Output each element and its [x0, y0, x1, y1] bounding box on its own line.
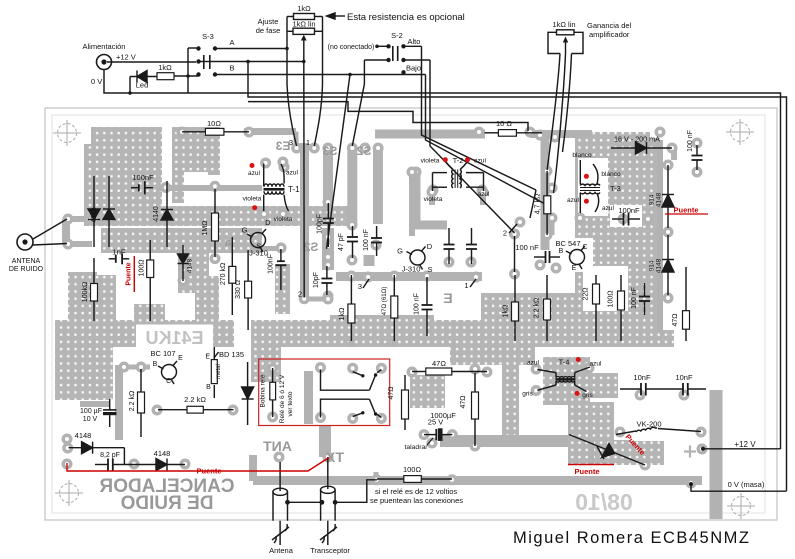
resistor R15 22 vertical: [593, 275, 600, 341]
svg-text:taladrar: taladrar: [404, 444, 428, 451]
svg-text:azul: azul: [286, 170, 298, 177]
svg-text:+12 V: +12 V: [734, 440, 756, 449]
svg-text:S2: S2: [356, 144, 371, 158]
svg-text:azul: azul: [478, 191, 490, 198]
wire S-3 to phase pot rail: [248, 62, 787, 492]
capacitor C17 100uF 10V: [103, 399, 116, 427]
svg-text:S: S: [427, 265, 432, 274]
svg-text:Ganancia del: Ganancia del: [587, 21, 632, 30]
svg-text:2.2 kΩ: 2.2 kΩ: [534, 298, 541, 318]
svg-text:DE RUIDO: DE RUIDO: [9, 266, 44, 273]
wire +12V out: [701, 447, 781, 451]
svg-text:1nF: 1nF: [113, 248, 126, 257]
svg-text:a: a: [224, 237, 231, 249]
svg-text:100Ω: 100Ω: [139, 260, 146, 277]
svg-text:Puente: Puente: [673, 206, 698, 215]
transistor Q4 BC107: [158, 361, 177, 384]
svg-text:25 V: 25 V: [428, 418, 443, 427]
svg-text:4140: 4140: [153, 206, 160, 222]
diode D10 4148: [69, 442, 125, 465]
svg-text:47Ω: 47Ω: [672, 313, 679, 326]
svg-text:S-2: S-2: [391, 31, 403, 40]
svg-text:4148: 4148: [75, 431, 92, 440]
svg-text:Antena: Antena: [269, 546, 294, 555]
svg-text:azul: azul: [590, 361, 602, 368]
svg-text:100 µF: 100 µF: [80, 408, 102, 415]
svg-text:Relé de 6 ó 12 V: Relé de 6 ó 12 V: [279, 374, 286, 423]
svg-text:B: B: [206, 384, 211, 391]
resistor R1 1k: [157, 73, 174, 80]
svg-text:azul: azul: [248, 170, 260, 177]
capacitor C21 10nF: [666, 383, 706, 396]
resistor R5 100k vertical: [91, 258, 98, 321]
svg-text:1kΩ: 1kΩ: [297, 4, 311, 13]
svg-text:Alto: Alto: [408, 37, 421, 46]
svg-text:(no conectado): (no conectado): [328, 44, 375, 51]
transformer T-4: [537, 367, 590, 392]
diode D6 16V rail: [611, 142, 672, 154]
svg-text:1kΩ lin: 1kΩ lin: [552, 20, 575, 29]
svg-text:Miguel Romera ECB45NMZ: Miguel Romera ECB45NMZ: [513, 529, 750, 547]
diode D9: [242, 362, 254, 425]
svg-text:0 V (masa): 0 V (masa): [728, 480, 765, 489]
svg-text:4148: 4148: [154, 449, 171, 458]
red dot marker: [443, 157, 448, 162]
svg-text:E: E: [205, 354, 210, 361]
resistor R13 1k vertical: [512, 275, 519, 341]
svg-text:BC 107: BC 107: [150, 349, 175, 358]
svg-text:100 nF: 100 nF: [515, 243, 539, 252]
svg-text:4,7 kΩ: 4,7 kΩ: [535, 194, 542, 214]
switch S-2: [364, 44, 430, 74]
svg-text:A: A: [229, 38, 234, 47]
svg-text:2: 2: [298, 290, 302, 299]
resistor R19 47 horizontal: [412, 368, 487, 375]
relay outline box (red): [259, 359, 390, 426]
resistor R4 100 vertical: [147, 240, 154, 321]
svg-text:16 V - 200 mA: 16 V - 200 mA: [614, 135, 660, 144]
svg-text:azul: azul: [602, 205, 614, 212]
wire pad link: [514, 236, 516, 272]
capacitor C13 100nF vertical right: [639, 283, 650, 315]
svg-text:100 nF: 100 nF: [414, 293, 421, 315]
svg-text:C: C: [166, 378, 171, 385]
svg-text:G: G: [242, 226, 248, 235]
PCB copper pour regions: [55, 127, 674, 465]
svg-text:T-3: T-3: [610, 184, 621, 193]
capacitor C15 100nF: [612, 213, 640, 226]
svg-text:330 Ω: 330 Ω: [235, 280, 242, 299]
svg-text:ANT: ANT: [263, 438, 292, 454]
fiducial crosses: [53, 119, 755, 519]
svg-text:100 nF: 100 nF: [363, 229, 370, 251]
resistor R10 1k vertical: [348, 275, 355, 341]
resistor R7 270k vertical: [229, 237, 236, 315]
resistor R3 10ohm: [485, 130, 542, 137]
svg-text:+12 V: +12 V: [116, 53, 136, 62]
svg-text:270 kΩ: 270 kΩ: [220, 263, 227, 285]
svg-text:BC 547: BC 547: [555, 239, 580, 248]
solder pads: [62, 127, 708, 489]
svg-text:C: C: [582, 244, 587, 251]
resistor R6 1M vertical: [212, 189, 219, 257]
transformer T-1: [264, 164, 289, 212]
svg-text:T-2: T-2: [453, 156, 464, 165]
capacitor C9 47nF: [509, 224, 517, 233]
relay coil: [270, 368, 276, 417]
svg-text:1: 1: [306, 138, 310, 147]
svg-text:Led: Led: [136, 81, 149, 90]
svg-text:E: E: [572, 265, 577, 272]
resistor R22 100 bottom: [377, 476, 452, 483]
arrow to optional resistor: [327, 13, 346, 19]
svg-text:1kΩ lin: 1kΩ lin: [292, 20, 315, 29]
svg-text:100 nF: 100 nF: [631, 287, 638, 309]
plus mark: [684, 446, 696, 458]
svg-text:VK-200: VK-200: [636, 420, 661, 429]
svg-text:J-310: J-310: [402, 265, 421, 274]
capacitor C11 100nF: [466, 228, 477, 264]
svg-text:3: 3: [289, 138, 293, 147]
svg-text:47Ω: 47Ω: [388, 386, 395, 399]
resistor R17 2.2k vertical: [138, 369, 145, 437]
diode D8 914/4148: [662, 235, 674, 295]
svg-text:10 Ω: 10 Ω: [496, 119, 512, 128]
resistor R-opt 1k (opcional): [287, 14, 323, 20]
svg-text:10nF: 10nF: [633, 373, 651, 382]
svg-text:Esta resistencia es opcional: Esta resistencia es opcional: [347, 12, 465, 23]
svg-text:2: 2: [503, 229, 507, 238]
svg-text:E: E: [178, 355, 183, 362]
svg-text:4148: 4148: [91, 207, 98, 223]
svg-text:de fase: de fase: [256, 26, 281, 35]
wire pin1: [470, 279, 476, 287]
capacitor C5 100nF: [371, 226, 382, 256]
copper traces: [66, 128, 716, 519]
svg-text:100nF: 100nF: [618, 206, 640, 215]
svg-text:violeta: violeta: [421, 158, 440, 165]
svg-text:4148: 4148: [187, 258, 194, 273]
svg-text:S2: S2: [303, 240, 318, 254]
svg-text:T-1: T-1: [288, 185, 300, 194]
svg-text:metal: metal: [216, 364, 222, 379]
svg-text:ver texto: ver texto: [287, 391, 294, 416]
wire pin2: [530, 190, 536, 218]
resistor R9 4.7k vertical: [544, 171, 551, 235]
switch S-3: [188, 46, 404, 93]
svg-text:2.2 kΩ: 2.2 kΩ: [184, 395, 206, 404]
red jumper wire bottom left: [67, 458, 329, 472]
potentiometer P1 1k lin Ajuste de fase: [285, 17, 322, 298]
svg-text:1kΩ: 1kΩ: [339, 308, 346, 321]
resistor R16 100 vertical: [618, 275, 625, 341]
svg-text:4148: 4148: [656, 258, 663, 273]
svg-text:S3: S3: [322, 144, 337, 158]
svg-text:E41KU: E41KU: [145, 328, 203, 348]
capacitor C8 100nF mid: [534, 251, 560, 263]
svg-text:10nF: 10nF: [675, 373, 693, 382]
diode D12 diagonal: [569, 435, 645, 466]
svg-text:Ajuste: Ajuste: [258, 17, 279, 26]
svg-text:violeta: violeta: [424, 196, 443, 203]
svg-text:azul: azul: [474, 158, 486, 165]
svg-text:amplificador: amplificador: [589, 30, 630, 39]
capacitor C4 47pF: [347, 226, 358, 258]
red dot marker: [250, 163, 255, 168]
svg-text:blanco: blanco: [572, 152, 592, 159]
svg-text:100kΩ: 100kΩ: [82, 282, 89, 302]
svg-text:si el relé es de 12 voltios: si el relé es de 12 voltios: [375, 487, 457, 496]
svg-text:47Ω (61Ω): 47Ω (61Ω): [381, 287, 388, 316]
svg-text:gris: gris: [582, 392, 593, 399]
svg-text:08/10: 08/10: [575, 489, 633, 515]
capacitor C22 100nF below J-310: [275, 249, 286, 290]
svg-text:E: E: [443, 290, 452, 306]
svg-text:azul: azul: [527, 360, 539, 367]
svg-text:100nF: 100nF: [132, 173, 154, 182]
resistor R21 47 vertical: [472, 373, 479, 446]
svg-text:D: D: [265, 218, 271, 227]
svg-text:100 nF: 100 nF: [687, 130, 694, 152]
svg-text:100Ω: 100Ω: [608, 291, 615, 308]
capacitor C6 10pF: [321, 266, 332, 295]
svg-text:G: G: [397, 247, 403, 256]
svg-text:gris: gris: [522, 391, 533, 398]
svg-text:DE RUIDO: DE RUIDO: [121, 493, 214, 514]
svg-text:10 V: 10 V: [83, 416, 98, 423]
resistor R14 2.2k vertical: [544, 275, 551, 341]
red dot marker: [584, 199, 589, 204]
capacitor C10 100nF: [444, 228, 455, 264]
svg-text:Transceptor: Transceptor: [310, 546, 350, 555]
svg-text:B: B: [559, 248, 564, 255]
resistor R23 47 vertical right: [683, 267, 690, 341]
svg-text:T-4: T-4: [559, 358, 570, 367]
choke L1 VK-200: [616, 427, 701, 434]
svg-text:100nF: 100nF: [268, 254, 275, 274]
taladrar callout: [427, 438, 433, 445]
svg-text:1: 1: [464, 281, 468, 290]
wire pin3: [363, 279, 369, 288]
resistor R11 47(61) vertical: [391, 275, 398, 341]
connector transceptor coax: [320, 457, 378, 545]
capacitor C18 8.2pF: [95, 459, 135, 472]
diode D2 4148: [88, 176, 100, 247]
svg-text:Puente: Puente: [126, 262, 133, 285]
connector antena coax: [272, 462, 322, 545]
red dot marker: [575, 391, 580, 396]
svg-text:violeta: violeta: [274, 216, 293, 223]
svg-text:violeta: violeta: [243, 196, 262, 203]
resistor R20 47 vertical: [402, 375, 409, 430]
wire 0V rail: [104, 70, 781, 450]
red dot marker: [465, 157, 470, 162]
svg-text:B: B: [229, 64, 234, 73]
potentiometer P2 1k lin Ganancia: [547, 30, 583, 193]
svg-text:Bajo: Bajo: [406, 64, 421, 73]
red puente line vertical: [133, 256, 135, 292]
diode D11 4148: [135, 459, 185, 471]
svg-text:8,2 pF: 8,2 pF: [100, 452, 120, 459]
relay contact set B: [321, 399, 382, 417]
red dot marker: [584, 174, 589, 179]
transformer T-3: [580, 160, 600, 213]
svg-text:22Ω: 22Ω: [583, 287, 590, 300]
diode D4 4140: [161, 181, 173, 247]
wire staircase A: [248, 102, 528, 131]
svg-text:S-3: S-3: [202, 32, 214, 41]
board outline frame: [45, 108, 777, 520]
diode D5 4148: [178, 245, 189, 281]
red dot marker: [576, 357, 581, 362]
svg-text:47Ω: 47Ω: [432, 359, 446, 368]
capacitor C16 100nF top right: [692, 145, 703, 170]
svg-text:D: D: [427, 242, 433, 251]
capacitor C3 100pF: [323, 203, 334, 247]
svg-text:blanco: blanco: [601, 171, 621, 178]
svg-text:47 pF: 47 pF: [338, 233, 345, 251]
relay contact set A: [321, 370, 382, 391]
red dot marker: [252, 205, 257, 210]
capacitor C20 10nF: [620, 383, 666, 396]
svg-text:47Ω: 47Ω: [460, 395, 467, 408]
svg-text:100Ω: 100Ω: [403, 465, 422, 474]
LED D1: [128, 71, 157, 95]
antenna input connector: [17, 219, 67, 250]
resistor R18 2.2k horizontal: [158, 406, 234, 413]
diode D3 4148: [103, 176, 115, 247]
wires S-2 drops to board: [327, 46, 548, 249]
svg-text:914: 914: [649, 260, 656, 271]
mirrored copper texts: [99, 139, 633, 515]
transistor Q3 BC547: [566, 246, 585, 269]
wire 0V out: [689, 482, 787, 491]
capacitor C2 1nF: [109, 254, 130, 265]
svg-text:BD 135: BD 135: [219, 350, 244, 359]
connector J1 Alimentacion: [97, 55, 112, 70]
svg-text:B: B: [153, 361, 158, 368]
svg-text:3: 3: [358, 282, 362, 291]
transistor Q5 BD135: [211, 347, 218, 398]
svg-text:1kΩ: 1kΩ: [503, 305, 510, 318]
svg-text:1MΩ: 1MΩ: [202, 221, 209, 236]
svg-text:Alimentación: Alimentación: [83, 42, 126, 51]
transistor Q2 J-310: [407, 247, 426, 270]
svg-text:10Ω: 10Ω: [207, 119, 221, 128]
transformer T-2: [433, 161, 484, 191]
capacitor C19 1000uF 25V: [424, 429, 452, 440]
svg-text:4148: 4148: [656, 192, 663, 207]
svg-text:Puente: Puente: [196, 467, 221, 476]
svg-text:J-310: J-310: [249, 249, 268, 258]
svg-text:azul: azul: [567, 197, 579, 204]
wire +12V feed: [107, 61, 196, 63]
capacitor C12 100nF vertical: [422, 277, 433, 336]
resistor R8 330 vertical: [245, 250, 252, 330]
resistor R2 10ohm: [182, 128, 249, 135]
svg-text:10pF: 10pF: [313, 272, 320, 288]
svg-text:1kΩ: 1kΩ: [158, 63, 172, 72]
diode D7 914/4148: [662, 165, 674, 228]
svg-text:se puentean las conexiones: se puentean las conexiones: [370, 496, 463, 505]
svg-text:ANTENA: ANTENA: [12, 258, 41, 265]
capacitor C1 100nF: [131, 181, 153, 194]
transistor Q1 J-310: [247, 229, 266, 252]
svg-text:0 V: 0 V: [91, 77, 102, 86]
svg-text:2.2 kΩ: 2.2 kΩ: [129, 391, 136, 411]
svg-text:Bobina relé: Bobina relé: [260, 374, 267, 407]
svg-text:914: 914: [649, 194, 656, 205]
svg-text:100pF: 100pF: [317, 214, 324, 234]
